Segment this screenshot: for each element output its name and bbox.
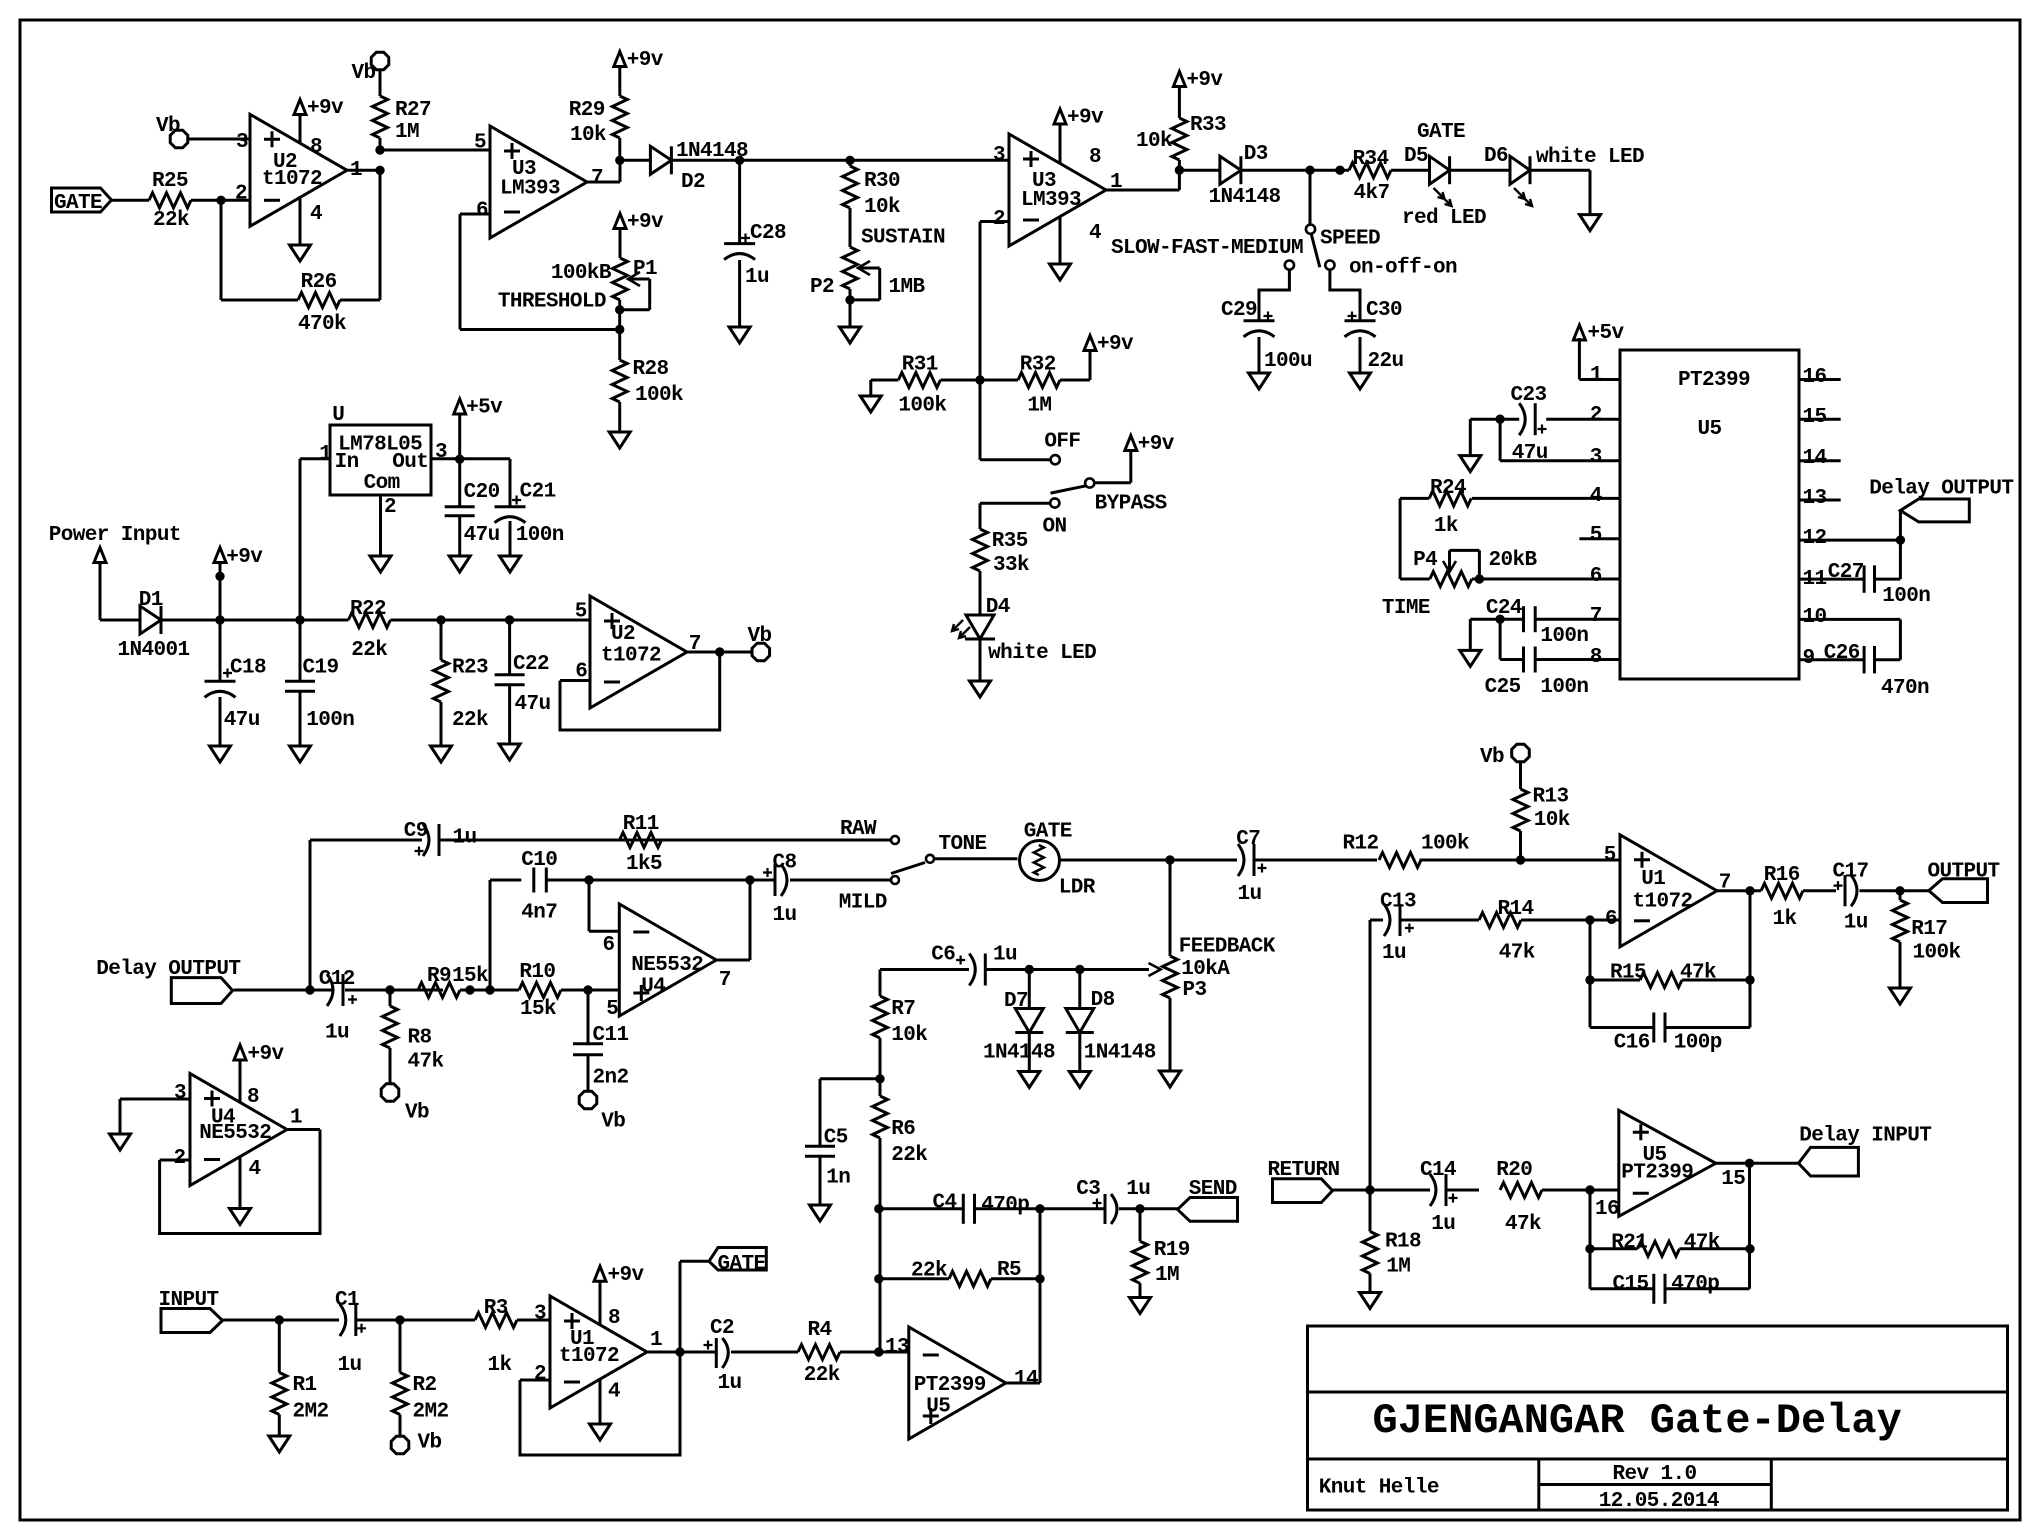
svg-text:Delay OUTPUT: Delay OUTPUT	[96, 958, 240, 981]
svg-text:C13: C13	[1380, 890, 1416, 913]
capacitor C12 1u	[327, 974, 333, 1006]
port OUTPUT tag	[1929, 879, 1988, 903]
capacitor C22 47u	[508, 620, 511, 675]
svg-text:C15: C15	[1613, 1273, 1649, 1296]
svg-text:U1: U1	[1641, 868, 1665, 891]
svg-text:TONE: TONE	[939, 833, 987, 856]
svg-text:22u: 22u	[1368, 350, 1404, 373]
svg-text:8: 8	[1089, 146, 1101, 169]
wire	[940, 379, 1018, 382]
port INPUT tag	[161, 1309, 223, 1333]
node pin6	[1586, 916, 1594, 924]
port Delay INPUT tag	[1799, 1147, 1859, 1176]
pin10 wire	[1799, 618, 1900, 621]
svg-text:C3: C3	[1076, 1178, 1100, 1201]
resistor R21 47k	[1590, 1247, 1638, 1250]
node R21 left	[1586, 1245, 1594, 1253]
svg-text:10k: 10k	[1136, 130, 1172, 153]
resistor R19 1M	[1139, 1209, 1142, 1242]
wire	[278, 1415, 281, 1437]
capacitor C17 1u	[1834, 881, 1843, 890]
svg-text:15k: 15k	[520, 998, 556, 1021]
svg-text:GATE: GATE	[1024, 820, 1072, 843]
Vb terminal at U2 pin3	[170, 130, 188, 148]
svg-text:Vb: Vb	[405, 1102, 429, 1125]
op-amp U5 PT2399 (send)	[909, 1327, 1006, 1439]
power +9v at P1	[619, 229, 622, 259]
wire	[1369, 1274, 1372, 1293]
svg-text:14: 14	[1803, 447, 1827, 470]
svg-text:47k: 47k	[1684, 1232, 1720, 1255]
resistor R9 15k	[418, 983, 460, 998]
power +9v at U1b pin8	[599, 1281, 602, 1325]
node R9/R10	[466, 986, 474, 994]
ground at U1b pin4	[599, 1379, 602, 1424]
svg-text:C9: C9	[404, 820, 428, 843]
wire	[1400, 497, 1429, 500]
svg-text:RAW: RAW	[840, 818, 877, 841]
svg-text:2: 2	[993, 208, 1005, 231]
pin4 wire	[1472, 497, 1620, 500]
op-amp U5 PT2399 (return)	[1619, 1110, 1716, 1216]
wire	[191, 199, 250, 202]
svg-text:100u: 100u	[1264, 350, 1312, 373]
wire U2 output	[347, 169, 380, 172]
wire	[731, 1351, 798, 1354]
ground under P2	[840, 327, 861, 343]
svg-text:R12: R12	[1343, 832, 1379, 855]
wire	[1169, 998, 1172, 1071]
svg-text:13: 13	[1803, 487, 1827, 510]
diode D8 1N4148	[1078, 970, 1081, 1009]
svg-text:C5: C5	[824, 1127, 848, 1150]
ground after D6	[1580, 215, 1601, 231]
svg-text:+9v: +9v	[1138, 433, 1175, 456]
svg-text:R25: R25	[152, 170, 188, 193]
wire	[1530, 169, 1590, 172]
Vb terminal under C11	[587, 1055, 590, 1090]
wire	[1860, 889, 1929, 892]
ground stub C23	[1469, 419, 1472, 455]
svg-text:white LED: white LED	[988, 642, 1096, 665]
svg-text:D2: D2	[681, 171, 705, 194]
svg-text:47u: 47u	[464, 524, 500, 547]
node R1 tap	[275, 1316, 283, 1324]
wire	[1400, 919, 1479, 922]
ground under C5	[810, 1205, 831, 1221]
svg-text:R2: R2	[413, 1374, 437, 1397]
svg-text:6: 6	[603, 934, 615, 957]
Vb terminal under R8	[389, 1048, 392, 1083]
node R27/pin5	[376, 146, 384, 154]
node pin13	[875, 1348, 883, 1356]
svg-text:C8: C8	[773, 852, 797, 875]
svg-text:100k: 100k	[898, 395, 946, 418]
svg-text:D1: D1	[139, 589, 163, 612]
svg-text:2: 2	[235, 183, 247, 206]
resistor R35 33k	[973, 529, 988, 571]
svg-text:1N4001: 1N4001	[118, 639, 190, 662]
pin5 stub	[1579, 537, 1620, 540]
resistor R7 10k	[873, 996, 888, 1038]
svg-text:Vb: Vb	[418, 1432, 442, 1455]
diode D7 1N4148	[1028, 970, 1031, 1009]
capacitor C18 47u	[219, 620, 222, 681]
wire	[1333, 1189, 1431, 1192]
resistor R12 100k	[1379, 853, 1421, 868]
wire +9v rail	[160, 619, 348, 622]
capacitor C21 100n	[509, 459, 512, 507]
svg-text:U5: U5	[1643, 1144, 1667, 1167]
svg-text:22k: 22k	[452, 709, 488, 732]
svg-text:R15: R15	[1610, 962, 1646, 985]
svg-text:R27: R27	[395, 99, 431, 122]
svg-text:PT2399: PT2399	[1678, 369, 1750, 392]
ground under C20	[449, 556, 470, 572]
capacitor C8 1u	[763, 868, 772, 877]
wire LED rail	[1241, 169, 1349, 172]
svg-text:R3: R3	[484, 1297, 508, 1320]
node Vb out	[716, 648, 724, 656]
capacitor C13 1u	[1384, 904, 1390, 936]
svg-text:2: 2	[1590, 404, 1602, 427]
ground under C28	[729, 327, 750, 343]
capacitor C3 1u	[1093, 1199, 1102, 1208]
svg-text:Vb: Vb	[601, 1110, 625, 1133]
svg-text:NE5532: NE5532	[631, 954, 703, 977]
svg-text:R32: R32	[1020, 354, 1056, 377]
resistor R3 1k	[475, 1313, 517, 1328]
pin3 wire	[1499, 419, 1502, 461]
node C4 right	[1036, 1205, 1044, 1213]
wire	[1450, 169, 1510, 172]
node R15 left	[1586, 976, 1594, 984]
svg-text:15: 15	[1721, 1168, 1745, 1191]
svg-text:22k: 22k	[804, 1364, 840, 1387]
capacitor C26 470n	[1863, 646, 1866, 673]
wire C3 rail	[1040, 1207, 1105, 1210]
svg-text:2: 2	[384, 496, 396, 519]
wire	[1875, 578, 1901, 581]
wire	[1446, 1189, 1479, 1192]
svg-text:R16: R16	[1764, 864, 1800, 887]
wire	[517, 1319, 550, 1322]
resistor R27 1M pullup	[379, 71, 382, 97]
capacitor C20 47u	[458, 459, 461, 507]
pin15 stub	[1799, 418, 1841, 421]
ground under R1	[269, 1436, 290, 1452]
svg-text:MILD: MILD	[839, 892, 887, 915]
switch contact RAW	[891, 836, 899, 844]
wire	[111, 199, 149, 202]
svg-text:2n2: 2n2	[593, 1067, 629, 1090]
svg-text:R23: R23	[452, 657, 488, 680]
node R2 tap	[396, 1316, 404, 1324]
wire	[849, 208, 852, 247]
svg-text:SPEED: SPEED	[1320, 228, 1380, 251]
svg-text:1u: 1u	[718, 1372, 742, 1395]
wire	[561, 989, 619, 992]
svg-text:1u: 1u	[338, 1354, 362, 1377]
IC U5 PT2399 box	[1620, 350, 1799, 679]
node aux	[1336, 166, 1344, 174]
op-amp U1 t1072 (input buffer)	[550, 1296, 647, 1408]
node C8 junction	[746, 876, 754, 884]
svg-text:R9: R9	[427, 965, 451, 988]
svg-text:SUSTAIN: SUSTAIN	[861, 227, 945, 250]
svg-text:R22: R22	[350, 598, 386, 621]
pin7 wire	[1535, 618, 1620, 621]
svg-text:LM393: LM393	[500, 178, 560, 201]
node C11 tap	[584, 986, 592, 994]
node +5v	[456, 455, 464, 463]
svg-text:R8: R8	[408, 1027, 432, 1050]
power +9v at R29	[618, 67, 621, 97]
svg-text:GATE: GATE	[1417, 121, 1465, 144]
wire	[1749, 891, 1752, 1028]
svg-text:8: 8	[1590, 646, 1602, 669]
svg-text:C22: C22	[513, 653, 549, 676]
svg-text:1u: 1u	[1431, 1213, 1455, 1236]
LED D6 white	[1510, 156, 1530, 184]
resistor R11 1k5	[620, 833, 662, 848]
wire	[1254, 859, 1377, 862]
svg-text:D4: D4	[986, 596, 1010, 619]
svg-text:15: 15	[1803, 406, 1827, 429]
svg-text:12.05.2014: 12.05.2014	[1599, 1490, 1719, 1513]
svg-text:10kA: 10kA	[1181, 958, 1230, 981]
wire U4a output	[716, 959, 750, 962]
svg-text:D8: D8	[1091, 989, 1115, 1012]
P3 wiper	[1149, 963, 1161, 976]
svg-text:4k7: 4k7	[1354, 182, 1390, 205]
svg-text:1M: 1M	[1027, 395, 1051, 418]
wire RAW rail	[439, 839, 892, 842]
svg-text:9: 9	[1803, 647, 1815, 670]
svg-text:C1: C1	[335, 1289, 359, 1312]
svg-text:8: 8	[608, 1307, 620, 1330]
op-amp U1 t1072 (output amp)	[1620, 835, 1717, 947]
wire	[934, 857, 1018, 860]
node C24	[1496, 615, 1504, 623]
svg-text:22k: 22k	[911, 1260, 947, 1283]
node C23	[1496, 415, 1504, 423]
wire	[849, 289, 852, 327]
wire	[189, 138, 251, 141]
svg-text:D6: D6	[1484, 145, 1508, 168]
node Delay INPUT	[1745, 1159, 1753, 1167]
wire R21 loop	[1589, 1190, 1592, 1289]
ground under R28	[618, 402, 621, 432]
pin12 wire	[1799, 539, 1900, 542]
capacitor C11 2n2	[587, 990, 590, 1044]
svg-text:C16: C16	[1614, 1032, 1650, 1055]
ground under P3	[1160, 1071, 1181, 1087]
node R29/D2	[616, 156, 624, 164]
ground under R18	[1360, 1293, 1381, 1309]
title block sub divider	[1539, 1483, 1772, 1486]
ground at U4b pin3	[110, 1134, 131, 1150]
LDR GATE (optocoupler)	[1020, 841, 1060, 881]
ground under R23	[431, 746, 452, 762]
svg-text:Vb: Vb	[1480, 746, 1504, 769]
svg-text:1u: 1u	[993, 944, 1017, 967]
svg-text:ON: ON	[1043, 516, 1067, 539]
svg-text:20kB: 20kB	[1489, 549, 1538, 572]
svg-text:R6: R6	[891, 1118, 915, 1141]
svg-text:13: 13	[885, 1336, 909, 1359]
svg-text:C30: C30	[1366, 299, 1402, 322]
svg-text:+5v: +5v	[466, 396, 503, 419]
svg-text:R24: R24	[1430, 477, 1466, 500]
svg-text:on-off-on: on-off-on	[1349, 257, 1457, 280]
ground under D8	[1069, 1072, 1090, 1088]
svg-text:BYPASS: BYPASS	[1095, 492, 1167, 515]
svg-text:R26: R26	[301, 271, 337, 294]
node R8 tap	[386, 986, 394, 994]
svg-text:R14: R14	[1498, 898, 1534, 921]
ground stub C24	[1469, 619, 1472, 650]
op-amp U2 t1072 (Vb buffer)	[590, 596, 687, 708]
svg-text:4n7: 4n7	[521, 902, 557, 925]
svg-text:t1072: t1072	[601, 645, 661, 668]
svg-text:C23: C23	[1511, 384, 1547, 407]
resistor R33 10k	[1172, 118, 1187, 160]
svg-text:3: 3	[534, 1303, 546, 1326]
wire R15 loop	[1589, 920, 1592, 1028]
wire	[1899, 619, 1902, 659]
wire	[1470, 418, 1519, 421]
P4 wiper	[1443, 561, 1456, 572]
wire	[1500, 658, 1523, 661]
svg-text:4: 4	[1590, 485, 1602, 508]
svg-text:100n: 100n	[306, 709, 354, 732]
svg-text:100k: 100k	[635, 384, 683, 407]
ground under C18	[210, 746, 231, 762]
ground under C21	[500, 556, 521, 572]
node R18 tap	[1366, 1186, 1374, 1194]
svg-text:THRESHOLD: THRESHOLD	[498, 291, 606, 314]
wire	[1179, 169, 1220, 172]
svg-text:6: 6	[476, 200, 488, 223]
svg-text:1u: 1u	[1238, 883, 1262, 906]
ground under C22	[499, 744, 520, 760]
svg-text:1u: 1u	[773, 904, 797, 927]
svg-text:C28: C28	[750, 222, 786, 245]
capacitor C24 100n	[1522, 606, 1525, 632]
node C18 tap	[216, 616, 224, 624]
wire	[460, 989, 519, 992]
svg-text:3: 3	[993, 144, 1005, 167]
svg-text:C14: C14	[1420, 1159, 1456, 1182]
wire U1b feedback loop	[520, 1379, 550, 1382]
wire U4b pin3	[120, 1098, 190, 1101]
svg-text:FEEDBACK: FEEDBACK	[1179, 935, 1276, 958]
ground at U4b pin4	[239, 1156, 242, 1209]
wire	[618, 300, 621, 330]
power +5v arrow	[458, 414, 461, 459]
wire C9 riser	[309, 840, 312, 990]
capacitor C1 1u	[340, 1304, 346, 1336]
wire	[356, 1319, 475, 1322]
op-amp U4 NE5532 (tone)	[619, 904, 716, 1016]
ground under R19	[1130, 1298, 1151, 1314]
resistor R23 22k	[440, 620, 443, 660]
wire U1a output	[1717, 889, 1761, 892]
svg-text:C11: C11	[593, 1024, 629, 1047]
wire	[1470, 618, 1523, 621]
svg-text:LM393: LM393	[1021, 189, 1081, 212]
wire	[1748, 1163, 1751, 1289]
svg-text:+9v: +9v	[627, 211, 664, 234]
wire	[979, 639, 982, 681]
svg-text:C6: C6	[931, 944, 955, 967]
wire C10 riser	[489, 880, 492, 990]
ground at U2 pin4	[299, 196, 302, 245]
wire	[100, 619, 140, 622]
switch BYPASS	[1051, 455, 1060, 464]
svg-text:8: 8	[247, 1086, 259, 1109]
svg-text:+9v: +9v	[248, 1043, 285, 1066]
svg-text:100k: 100k	[1913, 942, 1961, 965]
svg-text:1u: 1u	[453, 827, 477, 850]
svg-text:In: In	[335, 451, 359, 474]
wire U1b output	[647, 1351, 716, 1354]
wire	[345, 989, 443, 992]
svg-text:R35: R35	[992, 530, 1028, 553]
node R19 tap	[1136, 1205, 1144, 1213]
wire	[880, 968, 969, 971]
svg-text:R30: R30	[864, 170, 900, 193]
port SEND tag	[1178, 1198, 1238, 1222]
svg-text:+9v: +9v	[1186, 69, 1223, 92]
port RETURN tag	[1273, 1179, 1333, 1203]
diode D1 1N4001	[140, 606, 161, 634]
svg-text:1u: 1u	[1126, 1178, 1150, 1201]
wire C4/R5 rail	[879, 1207, 964, 1210]
svg-text:1k5: 1k5	[626, 853, 662, 876]
port Delay OUTPUT tag	[1899, 511, 1902, 540]
svg-text:1MB: 1MB	[889, 276, 926, 299]
title block divider right	[1770, 1459, 1773, 1510]
node P4 wiper	[1475, 575, 1483, 583]
wire	[1521, 919, 1620, 922]
svg-text:Delay OUTPUT: Delay OUTPUT	[1869, 477, 2013, 500]
svg-text:R29: R29	[569, 99, 605, 122]
resistor R6 22k	[873, 1096, 888, 1138]
node R5 left	[875, 1275, 883, 1283]
resistor R28 100k	[618, 330, 621, 361]
pin6 wire	[1472, 578, 1620, 581]
svg-text:Vb: Vb	[156, 115, 180, 138]
potentiometer P3 10kA FEEDBACK	[1169, 860, 1172, 956]
resistor R16 1k	[1761, 883, 1803, 898]
resistor R25	[149, 193, 191, 208]
wire U5d output	[1716, 1162, 1799, 1165]
svg-text:100kB: 100kB	[551, 262, 612, 285]
power +9v at U2 pin8	[299, 115, 302, 145]
svg-text:2M2: 2M2	[413, 1400, 449, 1423]
node GATE riser	[676, 1348, 684, 1356]
wire	[1060, 859, 1237, 862]
node pin6 junction	[585, 876, 593, 884]
wire	[1420, 859, 1621, 862]
capacitor C4 470p	[962, 1194, 965, 1224]
svg-text:U5: U5	[926, 1395, 950, 1418]
diode D3 1N4148	[1220, 156, 1241, 184]
svg-text:C25: C25	[1485, 676, 1521, 699]
svg-text:Rev 1.0: Rev 1.0	[1613, 1463, 1697, 1486]
